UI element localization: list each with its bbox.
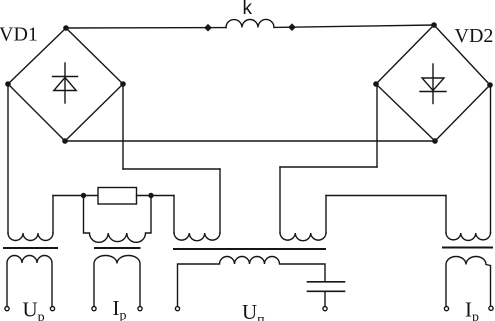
junction dot right of inductor — [288, 23, 296, 31]
transformer T4 primary winding (Un right) — [280, 233, 326, 241]
junction dot resistor right — [148, 193, 153, 198]
transformer Un core — [174, 248, 325, 250]
diode inside VD1 — [53, 63, 78, 103]
terminal T2 left — [92, 307, 96, 311]
wire top-left from VD1 top to inductor — [66, 27, 226, 29]
wire resistor right segment — [137, 195, 175, 197]
node dot VD1 bottom — [62, 138, 68, 144]
transformer T1 primary winding — [8, 233, 53, 241]
svg-text:Uп: Uп — [242, 300, 265, 321]
terminal Un left — [175, 307, 179, 311]
wire T1 primary right lead up — [52, 196, 54, 234]
wire T5 primary left lead down — [445, 196, 447, 234]
node dot VD2 right — [487, 82, 493, 88]
node dot VD1 top — [63, 25, 69, 31]
transformer T5 primary winding — [446, 233, 491, 240]
transformer T2 secondary winding — [94, 256, 140, 307]
wire jog left down to T3 winding — [219, 169, 221, 233]
transformer T2 primary winding — [84, 196, 152, 243]
capacitor C plate top — [308, 281, 345, 283]
svg-text:Up: Up — [23, 298, 45, 321]
transformer T5 core — [443, 247, 492, 249]
terminal Un right — [323, 307, 327, 311]
transformer T1 secondary winding — [7, 256, 52, 307]
capacitor C plate bottom — [308, 290, 345, 292]
wire jog right down to T4 winding — [279, 167, 281, 233]
resistor R — [98, 188, 137, 205]
svg-text:Ip: Ip — [465, 298, 479, 321]
inductor k — [226, 19, 274, 27]
transformer T1 core — [4, 247, 57, 249]
wire right section horizontal — [326, 195, 446, 197]
transformer T5 secondary winding — [446, 257, 491, 307]
terminal T5 right — [489, 306, 493, 310]
transformer T2 core — [95, 247, 140, 249]
transformer T3 primary winding (Un left) — [174, 233, 220, 241]
terminal T5 left — [444, 307, 448, 311]
svg-text:Ip: Ip — [113, 296, 127, 321]
node dot VD2 left — [373, 81, 379, 87]
svg-text:VD2: VD2 — [455, 25, 494, 47]
wire jog left horizontal — [123, 168, 220, 170]
diode inside VD2 — [420, 64, 446, 104]
junction dot resistor left — [81, 193, 86, 198]
wire T4 right lead up — [325, 196, 327, 234]
wire VD2 left node down — [376, 84, 378, 167]
terminal T1 right — [50, 307, 54, 311]
svg-text:VD1: VD1 — [0, 24, 38, 46]
transformer Un secondary winding — [178, 257, 326, 307]
node dot VD2 top — [431, 22, 437, 28]
wire VD2 right node down to T5 primary — [490, 85, 492, 233]
terminal T1 left — [5, 307, 9, 311]
wire from inductor to VD2 top — [274, 25, 434, 27]
terminal T2 right — [138, 307, 142, 311]
node dot VD1 left — [5, 81, 11, 87]
wire jog right horizontal — [280, 166, 377, 168]
bridge VD1 outline — [8, 28, 123, 141]
bridge VD2 outline — [376, 25, 490, 141]
wire capacitor bottom lead — [324, 291, 326, 306]
wire T3 left lead down — [173, 196, 175, 234]
wire VD1 right node down — [122, 84, 124, 169]
node dot VD1 right — [120, 81, 126, 87]
wire VD1 bottom to VD2 bottom — [65, 140, 435, 142]
junction dot left of inductor — [204, 24, 212, 32]
svg-text:k: k — [243, 0, 253, 19]
node dot VD2 bottom — [432, 138, 438, 144]
wire VD1 left node down to T1 primary — [7, 84, 9, 233]
wire resistor left segment — [53, 195, 98, 197]
